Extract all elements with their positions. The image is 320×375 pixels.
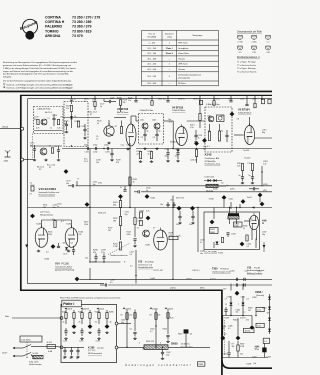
crt diode stack d (268, 329, 271, 332)
capacitor C262 (105, 283, 106, 286)
svg-text:3 W: 3 W (266, 52, 270, 54)
svg-text:PCL85: PCL85 (254, 268, 261, 270)
svg-text:R362: R362 (233, 319, 237, 321)
capacitor C123 (65, 124, 68, 125)
board resistor chain R282 (73, 313, 75, 319)
svg-text:Cny: Cny (121, 145, 124, 147)
wire x173 to boost (172, 250, 174, 280)
ground C256 (133, 245, 136, 247)
model list (45, 16, 100, 38)
crt wire y347 (228, 341, 230, 352)
svg-text:0,1: 0,1 (71, 243, 74, 245)
test point diamond TP12 (241, 199, 246, 204)
supply capacitor C652 (166, 335, 169, 336)
svg-text:401…450: 401…450 (147, 64, 157, 66)
svg-text:Si 201: Si 201 (47, 342, 52, 344)
stub from top border x262 (261, 95, 263, 100)
2nd IF filter module F201 dashed box (139, 114, 164, 145)
resistor R124 (77, 121, 79, 127)
wire x198 down (197, 208, 199, 253)
svg-text:4n: 4n (76, 358, 78, 360)
video driver triode T2 (104, 126, 114, 136)
transformer T300 leads (229, 208, 231, 214)
capacitor C261 (102, 257, 105, 258)
inner frame bottom line (28, 283, 105, 285)
resistor R252 (119, 217, 121, 226)
svg-text:(210V): (210V) (170, 288, 176, 290)
wire V3 anode up (130, 116, 132, 124)
svg-text:1n: 1n (74, 99, 76, 101)
wire boost rail lower (108, 284, 272, 286)
capacitor C155 (176, 153, 179, 154)
trimmer legend lines (237, 61, 257, 73)
board capacitor C283 (80, 331, 83, 332)
svg-text:Änderungen vorbehalten!: Änderungen vorbehalten! (124, 363, 192, 367)
main chassis frame top border (20, 94, 272, 96)
svg-text:3p: 3p (221, 131, 223, 133)
svg-text:L270: L270 (177, 236, 181, 238)
svg-text:C352 0,1: C352 0,1 (192, 270, 199, 272)
svg-text:18k: 18k (113, 221, 116, 223)
svg-text:10n: 10n (165, 156, 168, 158)
svg-text:Chrominanz und: Chrominanz und (138, 263, 152, 266)
svg-text:PCL86: PCL86 (62, 263, 70, 266)
svg-text:zum Tuner-: zum Tuner- (40, 212, 50, 214)
junction lower rail b (126, 347, 127, 348)
svg-text:L315: L315 (248, 163, 252, 165)
svg-text:V13 ECC804: V13 ECC804 (39, 187, 57, 191)
board ground c (97, 337, 100, 339)
capacitor C154 (166, 153, 169, 154)
wire supply v x168 (167, 310, 169, 335)
svg-text:Tastaufnahme: Tastaufnahme (181, 346, 193, 349)
svg-text:10n: 10n (96, 162, 99, 164)
ground R151 (139, 160, 142, 162)
svg-text:C281: C281 (63, 341, 67, 343)
capacitor C237 below bus (110, 153, 113, 154)
filter F301 capacitor C305 (225, 135, 228, 136)
small dark resistor R657 (184, 330, 188, 334)
svg-text:5p: 5p (64, 123, 66, 125)
board diamond TP21 (88, 324, 93, 329)
capacitor C268 on rail (166, 204, 169, 205)
svg-text:X142: X142 (205, 153, 212, 157)
svg-text:Drehkondensatoren .it: Drehkondensatoren .it (237, 56, 260, 59)
svg-text:50μ: 50μ (262, 234, 265, 236)
svg-text:Chassis: Chassis (178, 69, 185, 71)
board ground f (105, 331, 108, 333)
svg-text:13.306/1a: 13.306/1a (181, 344, 191, 346)
svg-text:2,2M: 2,2M (240, 346, 245, 348)
connector board right upper (115, 322, 118, 325)
svg-text:201…300: 201…300 (147, 53, 157, 55)
stub from top border x231 (230, 95, 232, 100)
svg-text:TF.312/12: TF.312/12 (220, 269, 230, 271)
svg-text:73 280 / 289: 73 280 / 289 (72, 20, 92, 24)
capacitor C173 (72, 250, 75, 251)
ground G6 (107, 142, 110, 144)
svg-text:10n: 10n (200, 253, 203, 255)
svg-text:Vertikalendstufe und: Vertikalendstufe und (247, 269, 264, 272)
wire audio node h (90, 261, 121, 263)
wire x238 link (237, 318, 239, 336)
svg-text:R1: R1 (121, 315, 123, 317)
wire x264 bottom (263, 343, 265, 347)
wire V4 grid lead (172, 128, 174, 149)
crt capacitor C361 (224, 310, 227, 311)
svg-text:(24V): (24V) (99, 309, 104, 311)
crt small resistor R369 (237, 345, 239, 351)
svg-text:1k: 1k (243, 228, 245, 230)
stub from top border x136 (135, 95, 137, 100)
capacitor C231 (87, 147, 88, 150)
ground F201 b (155, 147, 158, 149)
filter F101 capacitor C103 (52, 118, 55, 119)
svg-text:ungen und Ströme sind und ange: ungen und Ströme sind und angegeben für … (3, 70, 73, 73)
resistor R160 (195, 150, 197, 157)
capacitor C266 (178, 216, 181, 217)
resistor R345 (246, 235, 248, 241)
svg-text:10n: 10n (240, 354, 243, 356)
svg-text:Drehkondensatorgehäuse: Drehkondensatorgehäuse (178, 74, 202, 77)
svg-text:12,4: 12,4 (169, 122, 173, 124)
svg-text:R285: R285 (95, 312, 99, 314)
switch gang dashed link (26, 342, 28, 358)
svg-text:1k: 1k (84, 101, 86, 103)
svg-text:R144 60: R144 60 (206, 191, 213, 193)
3rd IF filter module F301 dashed box (205, 107, 232, 152)
svg-text:1k: 1k (133, 182, 135, 184)
module table rows (147, 42, 201, 85)
svg-text:C363: C363 (252, 297, 256, 299)
transformer T300 core bar (228, 213, 239, 215)
test point diamond TP9 (177, 206, 182, 211)
instruction paragraph (3, 61, 78, 78)
small rect component top right b (268, 99, 271, 104)
svg-text:(Zubehör): (Zubehör) (256, 294, 264, 297)
svg-text:X368 /: X368 / (255, 290, 263, 294)
svg-text:L202: L202 (152, 120, 156, 122)
wire vertical x136 audio (135, 250, 137, 284)
fuse holder rect (199, 100, 202, 104)
module table header (147, 33, 203, 39)
inner frame top line (28, 98, 273, 100)
svg-text:R240: R240 (213, 189, 217, 191)
svg-text:470k: 470k (98, 183, 102, 185)
svg-text:Tonendstufen-Röhre: Tonendstufen-Röhre (55, 266, 72, 269)
svg-text:8,2k: 8,2k (257, 326, 261, 328)
svg-text:R235: R235 (228, 99, 232, 101)
svg-text:Netzgerätebau: Netzgerätebau (40, 213, 53, 216)
svg-text:0,1: 0,1 (130, 254, 133, 256)
svg-text:C154: C154 (165, 149, 169, 151)
wire vertical x130 (129, 143, 131, 208)
vertical stub x214 to bus (213, 242, 215, 248)
svg-text:R228: R228 (117, 98, 121, 100)
capacitor C267 (191, 216, 194, 217)
svg-text:1.Bild-ZF-Röhre: 1.Bild-ZF-Röhre (172, 109, 185, 112)
svg-text:73 800 / 819: 73 800 / 819 (72, 29, 92, 33)
boxed label C344 (234, 222, 243, 227)
ground C347 (161, 357, 164, 359)
filter F201 coil L202 (154, 123, 160, 129)
tube V13b ECC804 triode 2 (65, 225, 78, 247)
svg-text:T3: T3 (137, 228, 139, 230)
svg-text:T3 = Eigen. Montage: T3 = Eigen. Montage (237, 67, 257, 70)
svg-text:4,7k: 4,7k (36, 128, 40, 130)
svg-text:Tv=90: Tv=90 (209, 199, 214, 201)
wire V3 anode link (131, 115, 136, 117)
svg-text:Baugruppe: Baugruppe (193, 35, 204, 37)
ground F201 a (143, 147, 146, 149)
svg-text:Lfd: Lfd (254, 363, 257, 365)
svg-text:21-4: 21-4 (84, 161, 88, 163)
svg-text:Tonabnehmerbuchse: Tonabnehmerbuchse (110, 254, 128, 257)
svg-text:R237: R237 (252, 99, 256, 101)
tube V13a ECC804 triode 1 (35, 225, 48, 247)
capacitor C352 upper rail (244, 278, 245, 281)
svg-text:ZF-Filter: ZF-Filter (178, 82, 186, 85)
svg-text:Bild-ZF-Verst.: Bild-ZF-Verst. (117, 111, 129, 114)
svg-text:R272 1,2M: R272 1,2M (154, 270, 163, 272)
svg-text:K7: K7 (90, 114, 92, 116)
wire right rail v (261, 166, 263, 187)
svg-text:Oszillatorm.-freq.: Oszillatorm.-freq. (205, 163, 221, 166)
svg-text:C171: C171 (63, 254, 67, 256)
wire x77 up from AGC (76, 181, 78, 186)
svg-text:5k: 5k (95, 322, 97, 324)
capacitor C353 lower rail (236, 283, 237, 286)
junction video bus x71 (71, 145, 72, 146)
capacitor C343 (226, 233, 229, 234)
svg-text:2k: 2k (79, 322, 81, 324)
svg-text:50μ: 50μ (121, 322, 124, 324)
resistor R247 stub (213, 101, 215, 106)
ground G3 (57, 159, 60, 161)
antenna input VHF (5, 150, 11, 157)
junction top x262 (261, 98, 262, 99)
resistor R125 top stub (94, 102, 96, 107)
board resistor chain R283 (81, 313, 83, 319)
coil L315 (251, 164, 253, 171)
capacitor C233 (107, 147, 108, 150)
wire right edge column (269, 294, 271, 334)
svg-text:56k: 56k (113, 205, 116, 207)
connector board right lower (115, 346, 118, 349)
wire x90 lower (89, 208, 91, 263)
svg-text:C155: C155 (175, 149, 179, 151)
svg-text:D655: D655 (171, 342, 178, 346)
svg-text:27k: 27k (128, 100, 131, 102)
capacitor C248 stub (229, 101, 232, 102)
svg-text:C230 1n: C230 1n (143, 99, 150, 101)
svg-text:3.Bild-ZF-Röhre: 3.Bild-ZF-Röhre (238, 112, 251, 115)
svg-text:73 360 / 379: 73 360 / 379 (72, 25, 92, 29)
svg-text:UHF-Tuner: UHF-Tuner (178, 64, 188, 66)
filled component D364 (262, 348, 266, 353)
wire V13a anode (41, 220, 43, 228)
ground V3 cathode (126, 148, 129, 150)
svg-text:1.Bild-ZF-Filter: 1.Bild-ZF-Filter (37, 107, 51, 110)
capacitor C347 (161, 352, 164, 353)
svg-text:F302, F304 und F305 treten paa: F302, F304 und F305 treten paarweise auf… (60, 296, 121, 299)
wire stage bus (30, 145, 62, 147)
svg-text:470k: 470k (48, 234, 52, 236)
svg-text:42 MHz/36s: 42 MHz/36s (205, 161, 216, 163)
triangle ground marker (25, 245, 28, 248)
svg-text:1n: 1n (30, 183, 32, 185)
svg-text:Oszillatorm. AM: Oszillatorm. AM (205, 157, 220, 160)
supply resistor R652 (134, 313, 136, 319)
svg-text:(212V): (212V) (210, 279, 216, 281)
svg-text:10n: 10n (63, 243, 66, 245)
ground V13b (67, 250, 70, 252)
svg-text:L302: L302 (220, 116, 224, 118)
svg-text:(gekoppelte Regelung): (gekoppelte Regelung) (55, 268, 75, 271)
svg-text:0,1: 0,1 (46, 252, 49, 254)
wire R655 out (168, 346, 210, 348)
capacitor C125 (83, 129, 86, 130)
svg-text:C?: C? (243, 312, 245, 314)
board resistor chain R284 (89, 313, 91, 319)
board resistor chain R286 (106, 313, 108, 319)
svg-text:1n: 1n (50, 128, 52, 130)
filter F301 resistor R303 (208, 132, 210, 141)
capacitor C317 (251, 177, 254, 178)
svg-text:1k: 1k (97, 123, 99, 125)
svg-text:1,5k: 1,5k (257, 310, 261, 312)
svg-text:T1 = Eigen. Fernlage: T1 = Eigen. Fernlage (237, 61, 257, 63)
Platte I board outline (61, 305, 117, 363)
svg-text:4n: 4n (70, 358, 72, 360)
svg-text:2n: 2n (200, 242, 202, 244)
wire x238 low (237, 341, 239, 345)
svg-text:NF-Phonosockel: NF-Phonosockel (88, 353, 103, 355)
connector mains bushing (60, 317, 63, 320)
svg-text:56k: 56k (123, 102, 126, 104)
board diamond TP20 (72, 324, 77, 329)
svg-text:PALERMO: PALERMO (45, 25, 63, 29)
wire filter2 to V4 grid (164, 120, 174, 122)
svg-text:R7: R7 (115, 126, 117, 128)
svg-text:82k: 82k (158, 315, 161, 317)
svg-text:Oszillatorwagen-Trafo: Oszillatorwagen-Trafo (212, 270, 230, 273)
svg-text:Tv=83: Tv=83 (36, 224, 41, 226)
junction lower rail c (155, 347, 156, 348)
wire x173 v (172, 196, 174, 250)
svg-text:0,5n: 0,5n (245, 271, 249, 273)
tube V5 EF184 (244, 123, 254, 145)
svg-text:27k: 27k (79, 234, 82, 236)
svg-text:C234 1n: C234 1n (213, 99, 220, 101)
wire main B+ rail (28, 207, 273, 209)
svg-text:1,2k: 1,2k (129, 315, 132, 317)
svg-text:0,5: 0,5 (110, 282, 113, 284)
capacitor C110 (33, 149, 36, 150)
svg-text:0,1: 0,1 (247, 299, 250, 301)
wire x224 diamond link (223, 200, 225, 208)
wire heater bus (141, 191, 272, 193)
svg-text:(24V): (24V) (67, 309, 72, 311)
svg-text:47k: 47k (93, 252, 96, 254)
wire tuner input (24, 159, 34, 161)
tube V3 EF183 (126, 122, 136, 147)
wire x120 v (120, 199, 122, 201)
wire T2 to V3 grid (114, 117, 126, 119)
test point diamond TP17 (260, 202, 265, 207)
svg-text:5p: 5p (100, 106, 102, 108)
ground G2 (44, 159, 47, 161)
wire mains N (15, 355, 24, 357)
wire to lower audio bus (100, 284, 105, 286)
svg-text:R654: R654 (163, 329, 167, 331)
svg-text:R655 219: R655 219 (146, 341, 154, 343)
mains input arrows (13, 347, 15, 349)
svg-text:12: 12 (225, 304, 227, 306)
board ground e (88, 331, 91, 333)
svg-text:helligkeit.: helligkeit. (3, 75, 12, 78)
svg-text:(24V): (24V) (230, 189, 235, 191)
crt extra labels (223, 299, 270, 356)
1st IF filter module F101 dashed box (34, 107, 64, 134)
ground V5 b (251, 182, 254, 184)
wire mains L (15, 347, 24, 349)
svg-text:(208V): (208V) (186, 279, 192, 281)
boxed resistor R347 (210, 228, 219, 234)
svg-text:L301: L301 (207, 116, 211, 118)
board ground a (64, 337, 67, 339)
svg-text:R270 27k: R270 27k (176, 198, 184, 200)
crt diamond TP33 (250, 325, 255, 330)
crt capacitor C370 (227, 353, 230, 354)
junction x198 (197, 207, 198, 208)
filter F301 resistor R304 (218, 131, 220, 141)
capacitor C216 (194, 135, 197, 136)
ground C155 (176, 160, 179, 162)
junction B+ x130 (129, 207, 130, 208)
board capacitor row C293 (76, 350, 79, 351)
svg-text:Kontrast- und Helligkeitsregle: Kontrast- und Helligkeitsregler auf Link… (6, 83, 72, 86)
ground C237 (110, 159, 113, 161)
capacitor C260 (94, 257, 97, 258)
svg-text:R263: R263 (140, 211, 144, 213)
svg-text:Schalt-Demodulator: Schalt-Demodulator (39, 194, 56, 197)
tube V15a PCL85 triode (249, 213, 258, 230)
junction lower rail (162, 347, 163, 348)
E300 boxed label (198, 362, 205, 366)
svg-text:—: — (168, 69, 170, 71)
filter F201 capacitor C204 (155, 134, 158, 135)
junction crt x243 (242, 315, 243, 316)
capacitor C354 lower rail (244, 283, 245, 286)
svg-text:C341: C341 (229, 199, 233, 201)
tube V7 ECH84 (154, 228, 168, 251)
svg-text:5n: 5n (146, 190, 148, 192)
svg-text:R2: R2 (61, 117, 63, 119)
svg-text:38kΩ: 38kΩ (210, 232, 215, 234)
junction T300 b (236, 207, 237, 208)
svg-text:73 260 / 270 / 279: 73 260 / 270 / 279 (72, 16, 100, 20)
main chassis frame bottom border (20, 289, 223, 291)
svg-text:1n: 1n (120, 187, 122, 189)
svg-text:V5 EF184: V5 EF184 (238, 108, 250, 112)
capacitor C269 on rail (172, 204, 175, 205)
svg-text:C283: C283 (79, 341, 83, 343)
ground R152 (150, 160, 153, 162)
svg-text:5n: 5n (239, 175, 241, 177)
oscillator module T300 box (204, 212, 260, 250)
svg-text:R233 1k: R233 1k (193, 99, 200, 101)
